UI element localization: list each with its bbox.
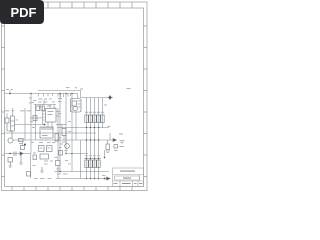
node X junction xyxy=(86,139,87,140)
label Q1 xyxy=(39,141,43,144)
label net6 xyxy=(58,101,61,102)
border grid ticks top xyxy=(48,2,132,8)
label U3 below a xyxy=(39,140,43,141)
node I junction xyxy=(94,178,96,180)
label U2 top2 xyxy=(47,106,52,107)
label x31 net a xyxy=(29,97,32,100)
sensor B2 xyxy=(21,146,25,150)
wire bottom bus H12 xyxy=(54,171,109,173)
label bottom d xyxy=(57,173,61,176)
wire vertical x31 left xyxy=(30,94,32,154)
switch S1 xyxy=(5,118,9,123)
label S1 xyxy=(12,110,15,111)
node R junction xyxy=(65,93,66,94)
resistor R7 xyxy=(93,160,96,168)
label x31 net b xyxy=(33,99,37,102)
resistor R10 xyxy=(19,138,24,141)
label R3 value xyxy=(93,112,96,113)
resistor R3 xyxy=(93,115,96,123)
label R2 value xyxy=(89,112,92,113)
node N junction xyxy=(65,153,67,155)
capacitor C6 xyxy=(106,144,110,150)
node O junction xyxy=(71,153,73,155)
node W junction xyxy=(98,127,99,128)
node F2 junction xyxy=(98,158,99,159)
label net2 xyxy=(44,99,47,100)
label net7 xyxy=(49,98,52,101)
wire relay net H4 xyxy=(15,124,46,126)
label low mid a xyxy=(65,159,68,162)
node P junction xyxy=(30,93,31,94)
wire vertical drop x94.5 xyxy=(94,98,96,179)
label Q3 area a xyxy=(60,143,63,146)
wire aux y118 xyxy=(30,117,43,119)
label aux d xyxy=(30,120,33,123)
title block col divider c xyxy=(132,181,134,187)
wire stub x104.5 xyxy=(104,150,106,158)
label R6 value xyxy=(89,154,92,157)
wire K1 top feed xyxy=(12,108,14,116)
wire aux bus y104.5 xyxy=(34,104,56,106)
wire supply bus V+ xyxy=(38,91,81,98)
node Z junction xyxy=(94,139,95,140)
label U2 text xyxy=(48,111,54,112)
node S junction xyxy=(71,93,72,94)
node M junction xyxy=(9,153,11,155)
label net3 xyxy=(39,102,42,103)
wire S1 branch xyxy=(7,123,12,138)
capacitor C5 xyxy=(56,161,61,166)
capacitor C2 xyxy=(8,158,13,163)
node T junction xyxy=(86,127,87,128)
wire U2 top pins xyxy=(50,105,54,109)
label bottom e xyxy=(63,173,68,176)
capacitor C7 xyxy=(36,106,40,111)
wire U2 pin right xyxy=(56,112,60,117)
label D1 xyxy=(20,110,25,111)
label out net xyxy=(119,134,123,135)
resistor R9 xyxy=(101,115,104,123)
wire pin stubs on bus xyxy=(39,94,71,98)
title block doc number text xyxy=(123,178,131,179)
title block outline xyxy=(113,168,144,187)
capacitor C1 xyxy=(14,152,16,157)
label B2 xyxy=(19,142,23,145)
label x31 net c xyxy=(29,102,32,105)
label aux e xyxy=(58,136,62,139)
wire vertical x110 xyxy=(109,133,111,140)
label net4 xyxy=(44,102,48,103)
relay K1 xyxy=(11,116,15,131)
label R8 value xyxy=(97,154,100,157)
wire vertical drop x102.5 xyxy=(102,98,104,129)
wire rail over R5-R8 xyxy=(84,158,101,160)
sheet inner border frame xyxy=(5,8,144,187)
wire vertical x80.5 xyxy=(76,112,81,179)
label U1 pin1 xyxy=(78,100,81,103)
wire vertical x58 link xyxy=(57,172,59,179)
box X3 mid xyxy=(59,151,63,156)
wire aux stub x40 xyxy=(39,105,41,109)
label aux f xyxy=(31,141,34,144)
label net8 xyxy=(52,101,55,104)
label mid low b xyxy=(50,160,53,163)
IC U3 xyxy=(40,127,53,138)
node A junction xyxy=(9,93,11,95)
label drop net a xyxy=(104,104,107,107)
label U2 top xyxy=(41,106,45,107)
label net1 xyxy=(39,99,43,100)
label mid low c xyxy=(44,163,48,166)
transistor Q2 xyxy=(47,146,53,152)
title block divider row2 xyxy=(113,180,144,182)
wire bus mid H6 xyxy=(5,132,97,134)
capacitor C9 xyxy=(33,155,37,160)
IC U2 xyxy=(46,109,57,123)
diode D1 xyxy=(20,152,23,155)
diode D3 xyxy=(107,177,111,180)
label aux g xyxy=(52,141,56,144)
label aux h xyxy=(32,126,35,129)
title block col divider b xyxy=(119,181,121,187)
capacitor C8 xyxy=(41,106,45,111)
title block inner cell xyxy=(115,176,140,180)
wire vertical drop x98.5 xyxy=(98,98,100,179)
ground GND1 xyxy=(9,166,13,168)
node C junction xyxy=(44,124,46,126)
resistor R5 xyxy=(85,160,88,168)
title block size text xyxy=(139,183,142,184)
resistor R4 xyxy=(97,115,100,123)
wire input net from U1 to terminal xyxy=(81,97,110,99)
label C9 xyxy=(33,152,36,155)
wire Q3 feed xyxy=(65,136,67,144)
label left net a xyxy=(6,88,9,91)
transistor Q3 xyxy=(65,144,70,149)
node K junction xyxy=(98,178,100,180)
label mid low a xyxy=(44,160,48,163)
label R4 value xyxy=(97,112,100,113)
title block col divider a xyxy=(139,175,141,182)
resistor R8 xyxy=(97,160,100,168)
label bus end a xyxy=(66,86,70,89)
wire supply bus V- xyxy=(5,94,78,99)
label K1 xyxy=(5,110,10,111)
label B1b xyxy=(114,150,118,151)
resistor R2 xyxy=(89,115,92,123)
wire left mid net xyxy=(5,153,31,155)
resistor R1 xyxy=(85,115,88,123)
label C4 xyxy=(27,110,31,111)
label U3 below b xyxy=(45,140,49,141)
label U3 text xyxy=(42,133,49,134)
ground GND3 xyxy=(40,167,43,173)
label drop net b xyxy=(108,125,111,128)
node Q junction xyxy=(59,93,60,94)
label bottom c xyxy=(48,177,52,180)
label Q3 xyxy=(62,141,66,144)
wire vertical x58 mid xyxy=(57,108,59,161)
node L junction xyxy=(104,157,106,159)
wire vertical drop x90.5 xyxy=(90,98,92,179)
ground GND2 xyxy=(19,154,22,165)
transistor Q1 xyxy=(39,146,45,152)
wire U2 bottom pins xyxy=(48,122,52,127)
label U1 pin2 xyxy=(78,103,81,106)
sheet outer border frame xyxy=(2,2,148,191)
wire vertical net x60 xyxy=(59,94,61,172)
title block col divider d xyxy=(137,181,139,187)
label Q3 area b xyxy=(65,149,68,152)
label U2 text2 xyxy=(48,114,53,115)
IC U3 pin hatches xyxy=(42,127,52,130)
node E junction xyxy=(86,158,87,159)
label bottom b xyxy=(40,177,45,180)
label low mid b xyxy=(68,163,71,166)
wire stub node A xyxy=(9,91,11,94)
label Q2 inner xyxy=(48,147,51,150)
node U junction xyxy=(90,127,91,128)
wire vertical drop x86.5 xyxy=(86,98,88,179)
label bottom a xyxy=(34,177,38,180)
label R5 value xyxy=(85,154,88,157)
label Q2 xyxy=(47,141,51,144)
wire S1 top feed xyxy=(6,113,8,118)
label U3 text2 xyxy=(42,135,48,136)
box X2 low left xyxy=(27,172,31,177)
border grid ticks bottom xyxy=(12,187,132,191)
wire net H10 xyxy=(66,153,88,155)
label Q1 inner xyxy=(40,147,43,150)
label node J xyxy=(102,174,106,177)
label R7 value xyxy=(93,154,96,157)
sensor B1 xyxy=(114,145,118,149)
wire aux y124.5 right xyxy=(56,124,66,126)
wire U2 feed left xyxy=(42,105,44,125)
ground GND4 xyxy=(56,166,59,171)
ground GND6 xyxy=(106,151,111,153)
node E2 junction xyxy=(90,158,91,159)
node F junction xyxy=(94,158,95,159)
label U1 pin3 xyxy=(78,106,81,109)
node AA junction xyxy=(98,139,99,140)
resistor R11 xyxy=(55,134,59,142)
wire vertical x35.5 left xyxy=(35,104,37,140)
node J junction xyxy=(104,178,106,180)
title block date text xyxy=(114,183,118,184)
wire vertical x30.5 low xyxy=(30,154,32,179)
node Y junction xyxy=(90,139,91,140)
net terminal diamond input xyxy=(108,95,113,100)
diode D2 xyxy=(113,139,117,142)
label aux a xyxy=(31,101,34,104)
wire vertical x25 left xyxy=(24,108,26,140)
label Q3 area c xyxy=(59,146,62,149)
title block divider row1 xyxy=(113,174,144,176)
power module U1 xyxy=(71,99,82,113)
wire U2 pin left xyxy=(43,111,46,120)
label aux i xyxy=(68,120,71,123)
ground GND5 xyxy=(120,141,125,144)
wire B2 stub xyxy=(22,142,24,146)
border grid ticks left xyxy=(2,26,5,177)
resistor R12 xyxy=(33,116,37,121)
node B junction xyxy=(24,144,26,146)
sheet background xyxy=(0,0,149,198)
label R9 value xyxy=(101,112,104,113)
label C5 xyxy=(55,156,59,159)
title block rev text xyxy=(134,183,137,184)
title block sheet text xyxy=(122,183,131,184)
wire aux stub x44 xyxy=(43,100,45,105)
wire R13 feed xyxy=(62,125,64,141)
label corner net a xyxy=(80,89,83,90)
node H junction xyxy=(90,178,92,180)
node G junction xyxy=(86,178,88,180)
wire bottom net H13 xyxy=(56,178,109,180)
op-amp U4 xyxy=(40,154,49,159)
wire stub C6 xyxy=(107,140,109,144)
motor M1 xyxy=(8,138,13,143)
title block title text xyxy=(120,171,135,172)
label B1 xyxy=(120,146,125,147)
label R1 value xyxy=(85,112,88,113)
wire vertical net x72 xyxy=(71,94,73,172)
label aux c xyxy=(58,112,62,115)
resistor R6 xyxy=(89,160,92,168)
PDF badge xyxy=(0,0,44,24)
label net5 xyxy=(58,98,62,99)
label aux b xyxy=(53,107,56,110)
label x30 low xyxy=(33,164,36,167)
label K1 inner xyxy=(16,119,19,122)
border grid ticks right xyxy=(144,26,148,177)
label corner net b xyxy=(75,86,78,89)
resistor R13 xyxy=(62,129,66,136)
wire vertical net x66 xyxy=(65,94,67,154)
label border net xyxy=(127,88,131,89)
wire bus mid H5 xyxy=(57,127,109,129)
wire output net H7 xyxy=(13,139,113,141)
label left net b xyxy=(11,88,14,91)
label aux j xyxy=(68,130,71,133)
svg-text:PDF: PDF xyxy=(11,5,37,20)
node D junction xyxy=(59,171,61,173)
node V junction xyxy=(94,127,95,128)
